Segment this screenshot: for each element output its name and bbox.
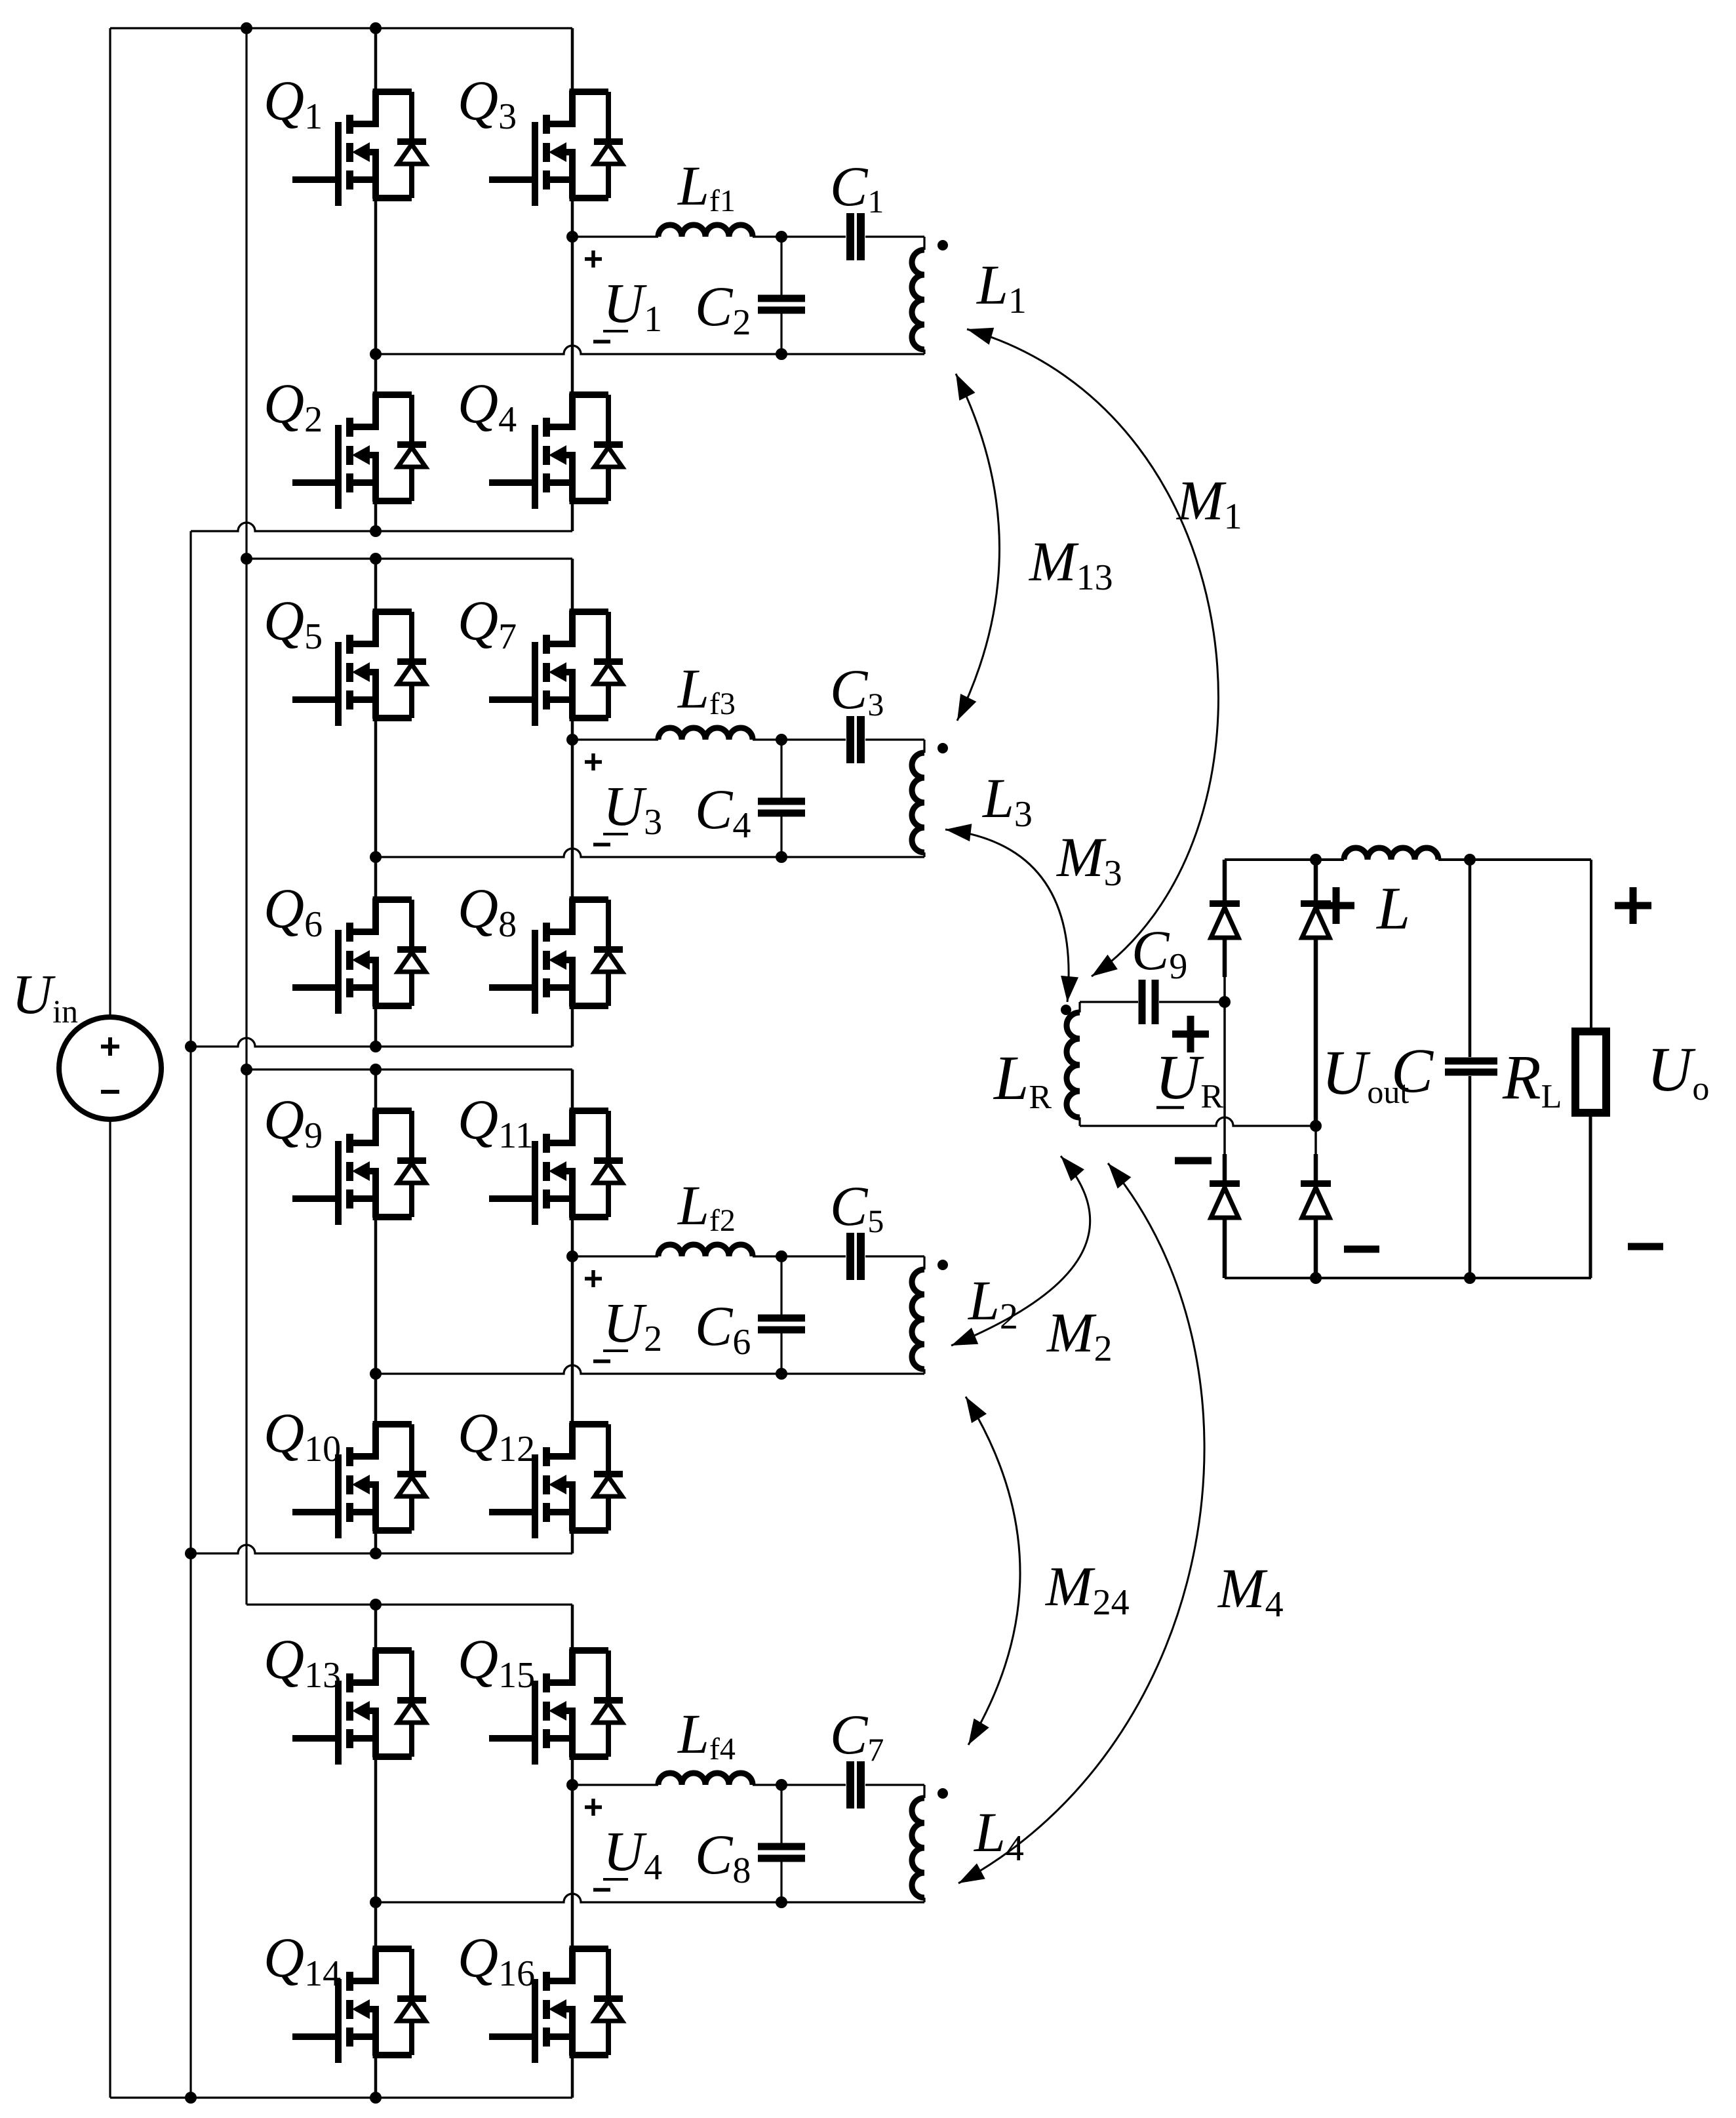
- capacitor C7 (series): [850, 1761, 861, 1808]
- wire: [865, 1255, 924, 1257]
- inductor L4 (transmit coil): [912, 1785, 924, 1902]
- capacitor C4 (shunt): [758, 740, 805, 863]
- capacitor C6 (shunt): [758, 1256, 805, 1380]
- label U2 plus: [585, 1270, 602, 1287]
- node: left mid of bridge Q5: [370, 851, 382, 863]
- inductor L3 (transmit coil): [912, 740, 924, 857]
- node: left mid of bridge Q13: [370, 1896, 382, 1908]
- inductor LR (receive coil): [1067, 1002, 1080, 1126]
- wire: bottom rail of bridge Q9-Q12: [185, 1545, 572, 1559]
- inductor L (output filter): [1344, 848, 1438, 860]
- wire: filter f2 top wire: [572, 1255, 658, 1257]
- label U4 minus: [593, 1888, 610, 1892]
- source Uin: [59, 1017, 161, 1119]
- label Uo plus: [1615, 887, 1651, 924]
- node: right mid of bridge Q15: [566, 1779, 578, 1791]
- node: right mid of bridge Q7: [566, 734, 578, 746]
- capacitor C8 (shunt): [758, 1785, 805, 1908]
- transistor Q8: [489, 740, 623, 1047]
- coupling arc M24: [966, 1397, 1020, 1745]
- label U2: [603, 1291, 662, 1359]
- wire: top rail of bridge Q9-Q12: [241, 1064, 572, 1075]
- wire: [753, 738, 846, 740]
- diode D4: [1301, 1184, 1331, 1218]
- wire: [1159, 996, 1231, 1008]
- transistor Q11: [489, 1069, 623, 1256]
- label U4 plus: [585, 1799, 602, 1816]
- node: right mid of bridge Q3: [566, 231, 578, 243]
- node: L3 polarity dot: [937, 743, 948, 753]
- label Uo minus: [1628, 1243, 1663, 1250]
- label U3 plus: [585, 753, 602, 770]
- resistor RL: [1575, 1031, 1606, 1278]
- wire: LR top wire: [1080, 1001, 1138, 1003]
- transistor Q1: [292, 28, 426, 354]
- node: filter f4 junction: [776, 1779, 787, 1791]
- capacitor C3 (series): [850, 716, 861, 763]
- wire: thick diode leads: [1225, 860, 1316, 1278]
- label Uout plus: [1318, 887, 1354, 924]
- inductor L1 (transmit coil): [912, 237, 924, 354]
- label U3: [603, 774, 662, 843]
- capacitor C5 (series): [850, 1233, 861, 1280]
- capacitor C (output): [1445, 860, 1497, 1278]
- wire: [865, 738, 924, 740]
- node: right mid of bridge Q11: [566, 1250, 578, 1262]
- wire: [753, 1255, 846, 1257]
- node: L4 polarity dot: [937, 1788, 948, 1799]
- inductor Lf4: [658, 1773, 753, 1785]
- transistor Q12: [489, 1256, 623, 1553]
- transistor Q14: [292, 1902, 426, 2098]
- wire: rectifier left leg: [1223, 860, 1226, 1278]
- wire: [753, 1784, 846, 1786]
- transistor Q15: [489, 1605, 623, 1785]
- wire: filter f3 top wire: [572, 738, 658, 740]
- label U1: [603, 271, 662, 340]
- transistor Q13: [292, 1605, 426, 1902]
- wire: [753, 235, 846, 237]
- node: filter f3 junction: [776, 734, 787, 746]
- label UR plus: [1172, 1016, 1209, 1052]
- node: filter f2 junction: [776, 1250, 787, 1262]
- coupling arc M13: [956, 374, 1000, 721]
- wire: bottom rail of bridge Q13-Q16: [110, 2092, 572, 2104]
- wire: [865, 235, 924, 237]
- transistor Q9: [292, 1069, 426, 1374]
- inductor Lf3: [658, 728, 753, 740]
- node: filter f1 junction: [776, 231, 787, 243]
- wire: filter f2 bottom wire with hop: [376, 1365, 924, 1374]
- label U1 minus: [593, 340, 610, 344]
- label Uout minus: [1344, 1246, 1379, 1253]
- inductor Lf2: [658, 1245, 753, 1256]
- node: LR polarity dot: [1061, 1005, 1071, 1015]
- capacitor C9: [1142, 980, 1155, 1024]
- transistor Q3: [489, 28, 623, 237]
- transistor Q5: [292, 559, 426, 857]
- coupling arc M1: [967, 328, 1218, 976]
- label U1 plus: [585, 250, 602, 268]
- wire: bus3 (positive rail): [245, 28, 247, 1605]
- node: L1 polarity dot: [937, 240, 948, 250]
- coupling arc M3: [945, 824, 1078, 1002]
- wire: rectifier top rail: [1225, 854, 1344, 866]
- node: left mid of bridge Q9: [370, 1368, 382, 1380]
- label UR: [1155, 1042, 1223, 1115]
- transistor Q4: [489, 237, 623, 531]
- diode D3: [1210, 1184, 1240, 1218]
- wire: [1438, 854, 1591, 866]
- transistor Q7: [489, 559, 623, 740]
- wire: top rail of bridge Q1-Q4: [110, 22, 572, 34]
- inductor L2 (transmit coil): [912, 1256, 924, 1374]
- coupling arc M2: [951, 1156, 1090, 1346]
- label UR minus: [1175, 1157, 1212, 1165]
- transistor Q16: [489, 1785, 623, 2098]
- wire: rectifier right leg: [1314, 860, 1317, 1278]
- wire: top rail of bridge Q13-Q16: [247, 1599, 572, 1610]
- wire: [865, 1784, 924, 1786]
- coupling arc M4: [958, 1163, 1204, 1883]
- wire: top rail of bridge Q5-Q8: [241, 553, 572, 565]
- wire: filter f1 bottom wire with hop: [376, 346, 924, 354]
- wire: bottom rail of bridge Q5-Q8: [185, 1038, 572, 1052]
- wire: filter f1 top wire: [572, 235, 658, 237]
- label U4: [603, 1820, 662, 1888]
- capacitor C2 (shunt): [758, 237, 805, 360]
- wire: to load: [1590, 860, 1592, 1031]
- wire: bus1 from Uin- bottom: [109, 1119, 111, 2098]
- wire: bus1 from Uin+ top: [109, 28, 111, 1017]
- label U3 minus: [593, 843, 610, 847]
- wire: filter f4 top wire: [572, 1784, 658, 1786]
- diode D1: [1210, 904, 1240, 938]
- wire: LR bottom wire with hop: [1080, 1117, 1322, 1132]
- wire: bottom rail of bridge Q1-Q4: [191, 523, 572, 537]
- svg-text:L: L: [1375, 875, 1410, 942]
- transistor Q6: [292, 857, 426, 1047]
- wire: rectifier bottom rail: [1225, 1272, 1591, 1284]
- label U2 minus: [593, 1359, 610, 1363]
- wire: filter f3 bottom wire with hop: [376, 849, 924, 857]
- transistor Q2: [292, 354, 426, 531]
- wire: bus2 (negative rail): [189, 531, 191, 2098]
- node: left mid of bridge Q1: [370, 348, 382, 360]
- transistor Q10: [292, 1374, 426, 1553]
- capacitor C1 (series): [850, 213, 861, 260]
- wire: filter f4 bottom wire with hop: [376, 1894, 924, 1902]
- node: L2 polarity dot: [937, 1260, 948, 1270]
- diode D2: [1301, 904, 1331, 938]
- inductor Lf1: [658, 225, 753, 237]
